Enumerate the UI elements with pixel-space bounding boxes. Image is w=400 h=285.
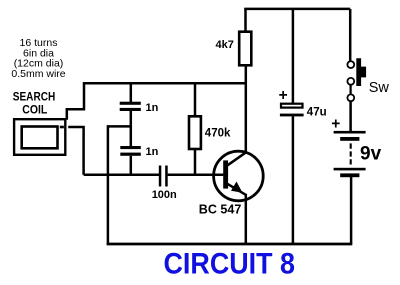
svg-text:0.5mm wire: 0.5mm wire [11,68,65,80]
svg-text:470k: 470k [205,128,231,140]
coil note text [11,37,65,80]
wire R1 top lead [244,8,247,31]
capacitor C4 47u electrolytic [281,104,303,108]
wire switch to battery [349,101,352,132]
svg-text:SEARCH: SEARCH [13,90,56,104]
wire battery to ground rail [350,177,353,244]
wire R2 top lead [194,83,197,115]
wire between C1 and C2 [130,111,133,147]
transistor Q1 circle [214,151,264,201]
wire coil inner terminal dash (crossover gap) [60,126,64,129]
svg-text:Sw: Sw [369,80,390,96]
capacitor C3 100n [159,166,162,187]
resistor R1 4k7 [239,32,251,66]
switch SW1 contact circle top [347,61,354,68]
svg-text:COIL: COIL [22,103,47,117]
capacitor C1 1n [120,102,141,105]
wire C3 to base [168,173,224,176]
capacitor C2 1n [120,146,141,149]
wire R1 bottom to collector [245,66,248,153]
svg-text:100n: 100n [152,189,177,201]
svg-text:+: + [331,116,340,133]
svg-text:4k7: 4k7 [216,39,234,51]
switch SW1 contact circle bottom [347,94,354,101]
wire emitter to ground rail [245,194,248,244]
wire R2 bottom lead [194,150,197,175]
wire coil inner terminal to main node [68,127,83,175]
wire coil outer terminal up and across top of stage [67,83,246,119]
battery B1 dashed link [350,143,352,164]
battery B1 cell1 short plate [340,137,359,141]
wire C4 bottom lead [292,116,295,243]
svg-text:BC 547: BC 547 [199,203,242,217]
resistor R2 470k [189,116,201,149]
wire switch middle link [350,85,352,96]
switch SW1 button [356,58,366,86]
transistor Q1 emitter stroke [228,184,247,195]
svg-text:+: + [279,87,288,104]
wire bottom ground rail [107,243,353,246]
svg-text:1n: 1n [146,146,159,158]
battery B1 cell1 long plate [334,131,366,134]
search coil L1 outer loop [14,119,65,155]
svg-text:1n: 1n [146,102,159,114]
wire mid-cap branch to ground rail [108,126,131,243]
wire top supply rail [244,8,350,11]
wire cap C1 top lead [130,83,133,102]
label SEARCH COIL [13,90,56,117]
wire C4 top lead [292,9,295,104]
svg-text:9v: 9v [360,143,382,164]
wire switch top lead [349,9,352,62]
search coil L1 inner loop [22,127,58,149]
transistor Q1 base bar [223,160,228,188]
battery B1 cell2 short plate [340,173,359,177]
wire main node to C3 [84,173,159,176]
battery B1 cell2 long plate [334,168,366,171]
transistor Q1 collector stroke [228,152,247,165]
switch SW1 contact circle middle [347,78,354,85]
svg-text:47u: 47u [307,107,327,119]
wire C2 bottom lead [130,156,133,175]
svg-text:CIRCUIT 8: CIRCUIT 8 [164,247,296,280]
transistor Q1 emitter arrow [231,182,243,193]
